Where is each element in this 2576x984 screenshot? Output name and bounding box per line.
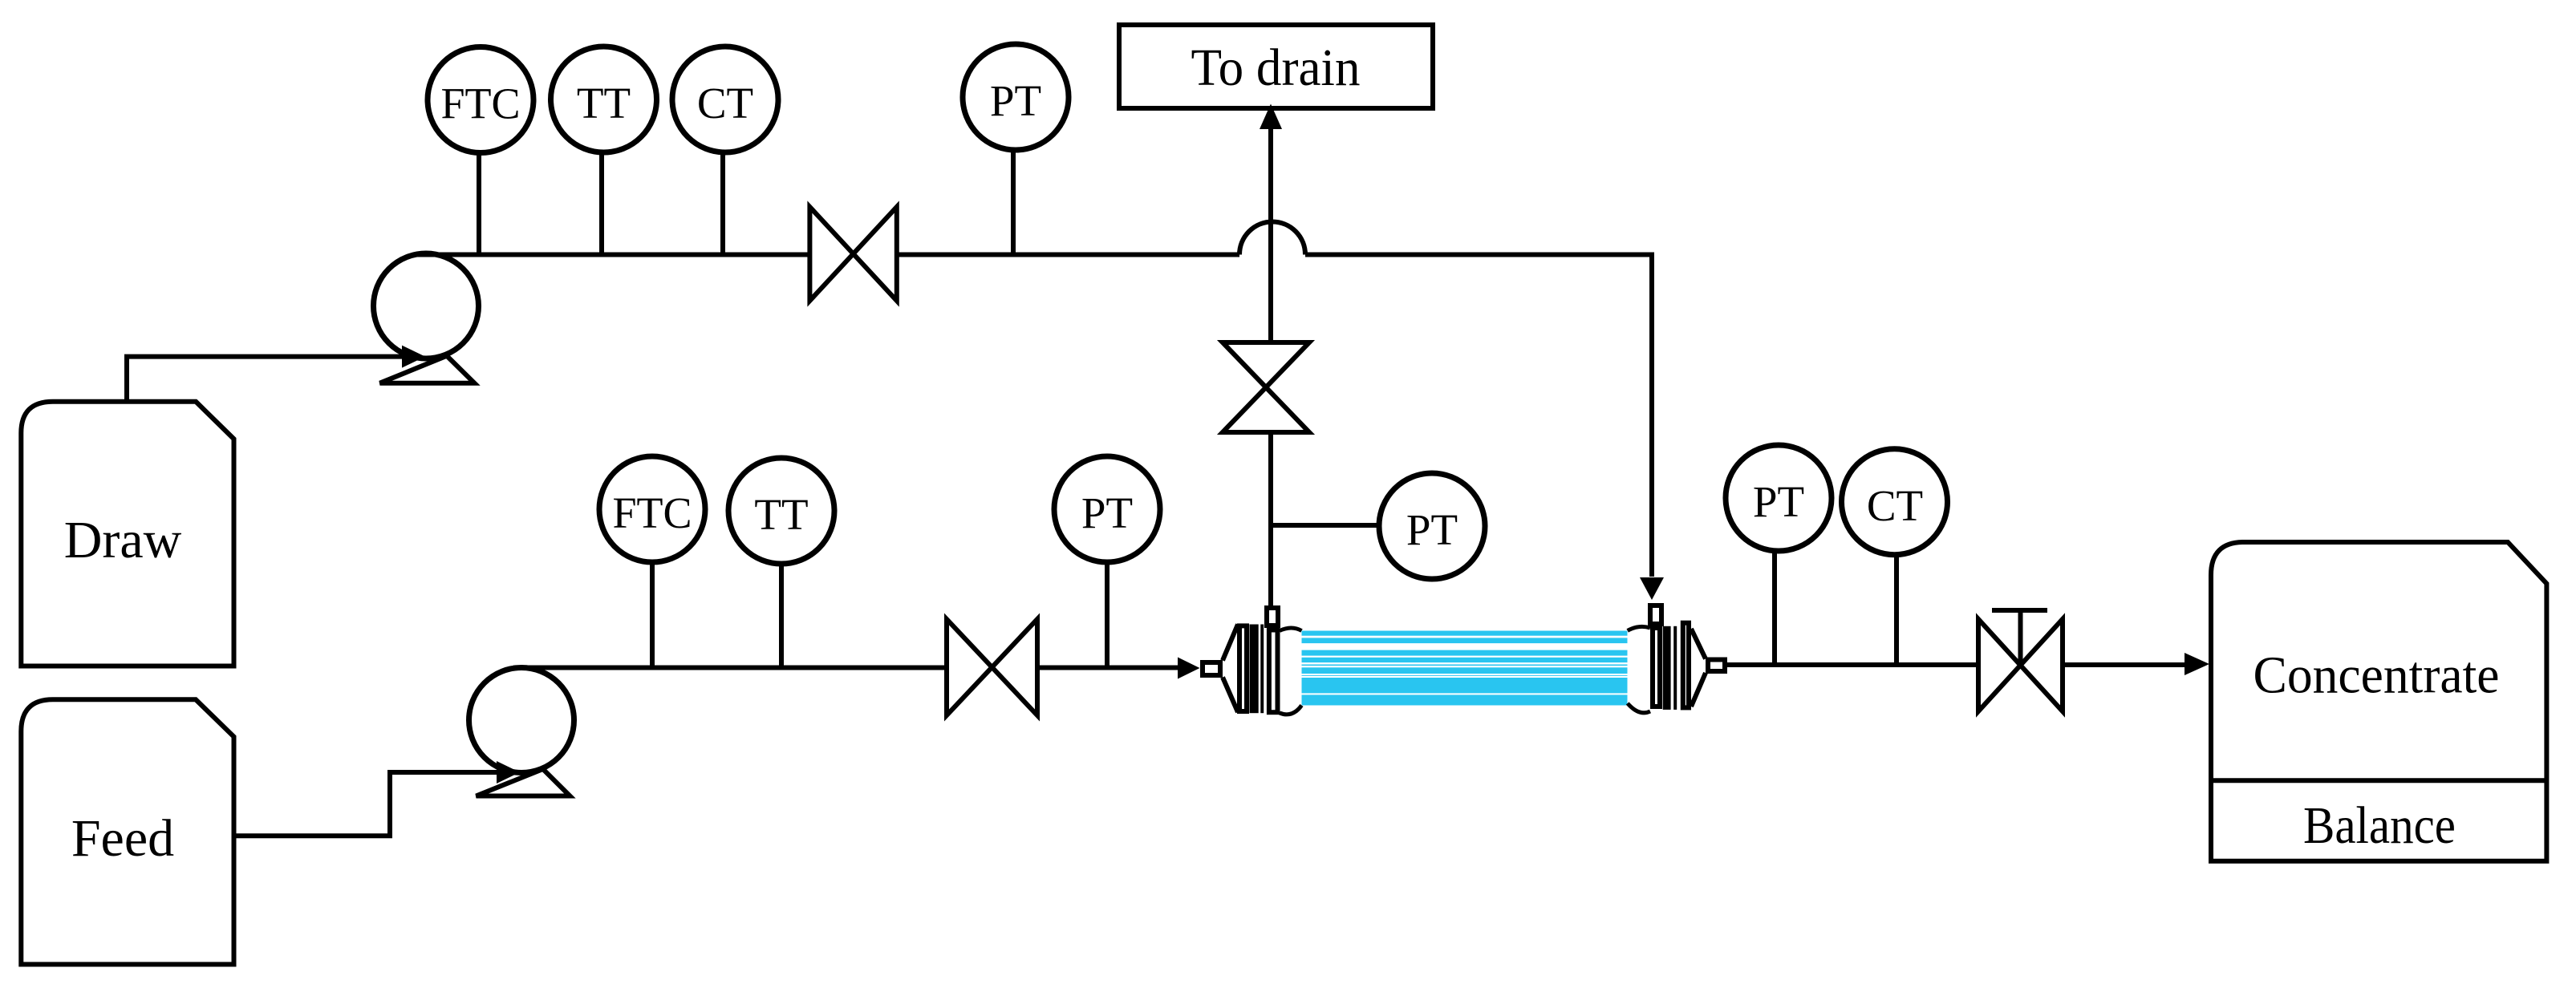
- wire outlet pipe right segment: [2063, 662, 2185, 667]
- right cone: [1691, 629, 1706, 707]
- wire middle pipe left segment: [513, 666, 947, 670]
- left cone: [1223, 625, 1238, 713]
- instrument FTC1: [428, 47, 533, 153]
- valve V3 drain line: [1223, 342, 1309, 432]
- wire drain line lower: [1268, 432, 1273, 606]
- fiber white stripes: [1302, 636, 1628, 695]
- arrow into P2: [497, 761, 520, 784]
- wire top pipe left segment: [415, 253, 812, 257]
- instrument TT2: [728, 458, 834, 564]
- svg-text:TT: TT: [577, 79, 631, 128]
- svg-text:To drain: To drain: [1191, 38, 1361, 97]
- arrow into P1: [402, 346, 425, 368]
- right nozzle: [1708, 660, 1725, 672]
- svg-text:PT: PT: [990, 76, 1041, 125]
- stem FTC1: [477, 152, 481, 255]
- svg-text:Draw: Draw: [64, 511, 182, 569]
- svg-text:CT: CT: [1867, 481, 1923, 530]
- svg-text:PT: PT: [1081, 488, 1133, 537]
- arrow into right port: [1640, 577, 1664, 600]
- svg-text:Balance: Balance: [2303, 796, 2456, 855]
- right shell dome: [1628, 626, 1650, 712]
- wire PT4 connector: [1271, 523, 1380, 528]
- tank Feed: [21, 699, 233, 964]
- svg-text:CT: CT: [697, 79, 753, 128]
- wire top pipe mid segment: [897, 253, 1239, 257]
- wire outlet pipe left segment: [1727, 662, 1978, 667]
- svg-text:PT: PT: [1406, 505, 1458, 554]
- right end plates: [1653, 628, 1660, 707]
- stem CT3: [1894, 553, 1899, 665]
- stem PT2: [1105, 561, 1110, 668]
- valve V2 top line: [809, 207, 896, 301]
- instrument CT3: [1842, 449, 1948, 555]
- instrument PT4: [1379, 473, 1485, 579]
- wire drain line upper: [1268, 129, 1273, 342]
- svg-text:FTC: FTC: [441, 79, 521, 128]
- left top port: [1267, 608, 1278, 626]
- arrow into concentrate tank: [2185, 653, 2209, 675]
- arrow to drain box: [1260, 104, 1282, 130]
- right top port: [1650, 605, 1661, 624]
- valve V1 feed line: [947, 619, 1037, 715]
- left end plates: [1239, 626, 1247, 711]
- svg-text:PT: PT: [1753, 477, 1804, 526]
- left shell dome: [1280, 628, 1302, 715]
- stem PT1: [1011, 149, 1016, 255]
- stem TT2: [779, 565, 784, 668]
- box To drain: [1119, 25, 1433, 108]
- instrument PT2: [1054, 456, 1160, 562]
- pipe jump arc: [1239, 222, 1305, 255]
- valve V4 concentrate line: [1978, 610, 2063, 711]
- stem PT3: [1772, 550, 1777, 665]
- tank Concentrate/Balance: [2211, 542, 2546, 861]
- stem FTC2: [650, 561, 655, 668]
- instrument PT3: [1726, 445, 1832, 551]
- instrument TT1: [551, 47, 657, 152]
- fiber bundle cyan: [1302, 631, 1628, 706]
- svg-text:FTC: FTC: [613, 488, 692, 537]
- svg-text:Feed: Feed: [71, 809, 174, 868]
- arrow into module: [1178, 658, 1200, 679]
- pump P2 (feed pump): [469, 668, 574, 796]
- left nozzle: [1203, 662, 1220, 675]
- stem TT1: [599, 152, 604, 255]
- wire draw tank to pump P1: [127, 357, 402, 401]
- svg-text:TT: TT: [754, 490, 808, 539]
- tank Draw: [21, 402, 233, 666]
- wire middle pipe right segment: [1037, 666, 1178, 670]
- wire top pipe right segment: [1305, 255, 1652, 577]
- stem CT1: [720, 151, 725, 255]
- instrument CT1: [672, 47, 778, 152]
- instrument PT1: [963, 44, 1069, 150]
- instrument FTC2: [599, 456, 705, 562]
- membrane module MBR: [1203, 605, 1725, 715]
- pump P1 (draw pump): [374, 253, 479, 383]
- svg-text:Concentrate: Concentrate: [2253, 646, 2500, 705]
- wire feed tank to pump P2: [234, 772, 497, 836]
